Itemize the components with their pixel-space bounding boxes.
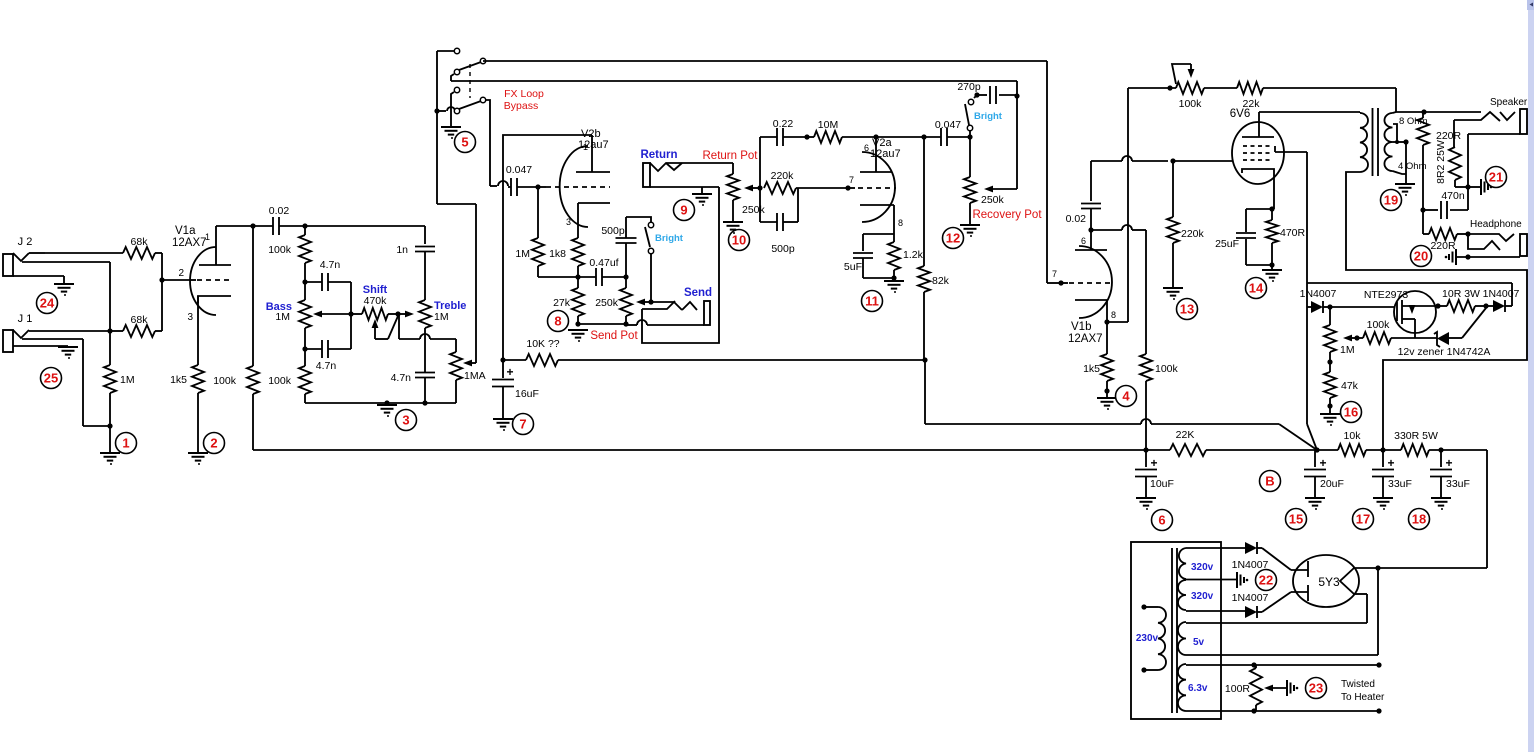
junction bass bottom (302, 346, 307, 351)
chassis 20 (1445, 249, 1456, 265)
label Bright V2a (974, 111, 1003, 122)
resistor 100k tone upper (268, 226, 311, 282)
svg-text:+: + (1445, 456, 1452, 470)
ground 19 (1395, 184, 1415, 196)
node 15 (1286, 509, 1307, 530)
svg-text:0.047: 0.047 (935, 119, 961, 131)
wire 5Y3 cathode out (1354, 565, 1487, 570)
label Bright V2b (655, 233, 684, 244)
svg-text:6V6: 6V6 (1230, 108, 1250, 120)
wire plate to 100k (1091, 225, 1146, 230)
node 11 (862, 291, 883, 312)
capacitor 0.047 V2a out (924, 119, 970, 146)
capacitor 470n (1423, 190, 1468, 219)
wire OT tap (1393, 124, 1409, 183)
junction V1b grid (1052, 269, 1069, 286)
svg-text:23: 23 (1309, 681, 1323, 696)
jack Send (626, 287, 712, 325)
capacitor 0.02 tone (269, 205, 305, 235)
junction V2a plate (873, 134, 924, 139)
node 1 (116, 433, 137, 454)
wire vvr wiper (1343, 335, 1357, 342)
label Send Pot (590, 330, 638, 342)
chassis 21 (1468, 179, 1492, 195)
ground 14 (1262, 270, 1282, 282)
svg-text:100k: 100k (1179, 98, 1203, 110)
svg-text:8: 8 (554, 314, 561, 329)
wire tone bottom (305, 400, 456, 405)
svg-text:7: 7 (849, 175, 854, 185)
pot 100R humdinger (1225, 665, 1262, 711)
node 21 (1486, 167, 1507, 188)
tube V1b (1068, 230, 1116, 345)
svg-text:68k: 68k (131, 236, 149, 248)
junction V2b cathode (575, 274, 580, 279)
node 7 (513, 414, 534, 435)
svg-text:8: 8 (1111, 310, 1116, 320)
capacitor 500p V2b (601, 217, 651, 277)
svg-text:100k: 100k (213, 375, 237, 387)
switch Bright V2b (645, 222, 654, 253)
wire screen diag (1307, 424, 1317, 450)
node 22 (1256, 570, 1277, 591)
resistor 100k vvr (1354, 319, 1415, 344)
diode zener 1N4742A (1398, 308, 1491, 358)
svg-text:12v zener 1N4742A: 12v zener 1N4742A (1398, 346, 1491, 358)
svg-text:320v: 320v (1191, 562, 1214, 573)
label Twisted To Heater (1341, 679, 1385, 703)
wire speaker feed (1396, 109, 1427, 114)
junction diode2 (1483, 303, 1488, 308)
svg-text:1M: 1M (434, 311, 449, 323)
ground 6 (1136, 498, 1156, 510)
svg-text:100k: 100k (268, 244, 292, 256)
capacitor 500p V2a (760, 188, 798, 255)
svg-text:7: 7 (519, 417, 526, 432)
ground 7 (493, 419, 513, 431)
capacitor 20uF (1304, 450, 1344, 497)
diode 1N4007 vvr2 (1483, 288, 1520, 312)
junction recovery top (967, 134, 972, 139)
svg-text:68k: 68k (131, 314, 149, 326)
wire B+ rail (253, 447, 1170, 452)
transformer OT core (1373, 108, 1379, 176)
junction 10M left (804, 134, 809, 139)
resistor 10K unknown (503, 338, 925, 366)
capacitor 33uF first (1372, 450, 1412, 497)
capacitor 1n (396, 226, 435, 300)
ground 17 (1373, 498, 1393, 510)
resistor 220R speaker (1417, 112, 1462, 210)
jack Headphone (1456, 234, 1527, 260)
svg-text:16: 16 (1344, 405, 1358, 420)
junction V1b plate (1088, 227, 1093, 232)
transformer PT primary 230v (1136, 604, 1166, 672)
label Return Pot (703, 150, 759, 162)
svg-text:Bright: Bright (974, 111, 1003, 122)
jack Speaker (1424, 109, 1527, 134)
wire treble wiper (398, 311, 414, 318)
svg-text:4.7n: 4.7n (320, 259, 341, 271)
capacitor 0.47uf (578, 257, 626, 286)
wire screen across (1307, 283, 1512, 306)
wire 4.7n join vertical (350, 282, 352, 349)
capacitor 10uF (1135, 450, 1174, 497)
capacitor 0.22 (760, 118, 807, 146)
svg-text:3: 3 (402, 413, 409, 428)
svg-text:1: 1 (205, 232, 210, 242)
wire NFB to OT (1395, 88, 1397, 112)
node 2 (204, 433, 225, 454)
pot Shift 470k (351, 284, 396, 320)
svg-text:V1b: V1b (1071, 321, 1091, 333)
node 23 (1306, 678, 1327, 699)
mosfet NTE2973 (1364, 289, 1436, 338)
junction tone top (302, 223, 425, 228)
wire humdinger wiper (1264, 685, 1287, 692)
svg-text:1N4007: 1N4007 (1483, 288, 1520, 300)
svg-text:22K: 22K (1176, 429, 1195, 441)
wire FX common (437, 51, 476, 363)
svg-text:13: 13 (1180, 302, 1194, 317)
resistor 470R (1266, 209, 1306, 269)
wire B+ to rectifier (1486, 450, 1488, 568)
diode 1N4007 vvr1 (1300, 288, 1337, 313)
node 25 (41, 368, 62, 389)
svg-text:1MA: 1MA (464, 370, 486, 382)
label Recovery Pot (972, 209, 1042, 221)
wire 68k join (161, 253, 163, 331)
ground 1 (100, 453, 120, 465)
wire return node vertical (759, 137, 761, 222)
capacitor 4.7n treble (391, 328, 435, 403)
wire 6V6 screen (1275, 151, 1307, 153)
resistor 68k upper (45, 236, 162, 259)
resistor 220R headphone (1423, 210, 1471, 252)
svg-text:1N4007: 1N4007 (1232, 592, 1269, 604)
ground 12 (960, 225, 980, 237)
ground 5 (441, 127, 461, 139)
svg-text:230v: 230v (1136, 633, 1159, 644)
svg-text:20: 20 (1414, 249, 1428, 264)
wire OT primary return (1346, 174, 1527, 450)
jack J2 (3, 236, 110, 331)
resistor 27k (553, 277, 584, 324)
ground 9 (692, 194, 712, 206)
junction 82k top (921, 134, 926, 139)
node 4 (1116, 386, 1137, 407)
svg-text:500p: 500p (601, 225, 625, 237)
svg-text:5Y3: 5Y3 (1318, 575, 1340, 589)
node 14 (1246, 278, 1267, 299)
label FX Loop Bypass (504, 88, 544, 112)
capacitor 33uF second (1430, 450, 1470, 497)
tube V2b (546, 128, 610, 238)
svg-text:22: 22 (1259, 573, 1273, 588)
svg-text:10uF: 10uF (1150, 478, 1174, 490)
svg-text:0.02: 0.02 (1066, 213, 1087, 225)
pot Recovery 250k (964, 137, 1005, 224)
wire FX rail2 (451, 80, 1017, 82)
diode 1N4007 rect1 (1232, 542, 1291, 571)
svg-text:16uF: 16uF (515, 388, 539, 400)
svg-text:12AX7: 12AX7 (1068, 333, 1103, 345)
svg-text:24: 24 (40, 296, 55, 311)
svg-text:Headphone: Headphone (1470, 219, 1522, 230)
label Speaker (1490, 97, 1528, 108)
chassis 23 (1287, 680, 1298, 696)
pot Bass 1M (266, 282, 311, 349)
resistor 1k5 V1b (1083, 322, 1113, 397)
resistor 22K rail (1170, 429, 1338, 456)
svg-text:10R 3W: 10R 3W (1442, 288, 1480, 300)
wire 6V6 grid (1091, 156, 1233, 164)
resistor 1.2k (888, 234, 924, 281)
wire recovery wiper (984, 186, 1017, 193)
svg-text:Return: Return (640, 149, 677, 161)
pot Send 250k (595, 277, 632, 327)
resistor 220k return (764, 170, 848, 194)
resistor 68k lower (110, 314, 162, 337)
pot Volume 1MA (450, 346, 486, 403)
capacitor 5uF (844, 234, 894, 278)
capacitor 0.047 V2b in (506, 164, 538, 196)
transformer PT core (1172, 548, 1177, 713)
svg-text:12: 12 (946, 231, 960, 246)
svg-text:2: 2 (210, 436, 217, 451)
svg-text:8R2 25W: 8R2 25W (1435, 140, 1447, 184)
svg-text:21: 21 (1489, 170, 1503, 185)
svg-text:100R: 100R (1225, 683, 1251, 695)
svg-text:Speaker: Speaker (1490, 97, 1528, 108)
pot 1M vvr (1324, 307, 1355, 365)
svg-text:Bypass: Bypass (504, 100, 538, 112)
capacitor 4.7n upper (305, 259, 351, 291)
svg-text:J 1: J 1 (18, 313, 33, 325)
junction V1b cathode (1104, 319, 1128, 324)
tube 5Y3 (1291, 555, 1359, 607)
svg-text:1N4007: 1N4007 (1232, 559, 1269, 571)
svg-text:2: 2 (178, 268, 184, 279)
wire V1a plate rail (216, 225, 273, 227)
junction shift out (395, 311, 400, 316)
tube V2a (858, 137, 903, 228)
svg-text:470n: 470n (1441, 190, 1465, 202)
tube 6V6 (1230, 108, 1284, 209)
wire FX switch to V2b (486, 100, 497, 186)
svg-text:5: 5 (461, 135, 468, 150)
junction heater taps (1251, 662, 1381, 713)
ground 4 (1097, 398, 1117, 410)
wire return wiper (744, 185, 763, 192)
resistor 1k8 V2b cathode (549, 238, 584, 277)
node 10 (729, 230, 750, 251)
node 9 (674, 200, 695, 221)
tube V1a (172, 225, 233, 365)
pot 100k NFB (1172, 64, 1204, 110)
ground 15 (1305, 498, 1325, 510)
svg-text:47k: 47k (1341, 380, 1359, 392)
switch Bright V2a (965, 99, 974, 137)
svg-text:1M: 1M (275, 311, 290, 323)
wire send enclosure (642, 187, 719, 343)
transformer OT primary (1259, 112, 1368, 174)
svg-text:4.7n: 4.7n (391, 372, 412, 384)
resistor 47k (1324, 362, 1359, 413)
svg-text:8: 8 (898, 218, 903, 228)
svg-text:Twisted: Twisted (1341, 679, 1375, 690)
svg-text:4: 4 (1122, 389, 1130, 404)
ground under J2 (54, 284, 74, 296)
svg-text:+: + (506, 365, 513, 379)
svg-text:14: 14 (1249, 281, 1264, 296)
ground 10 (723, 222, 743, 234)
svg-text:33uF: 33uF (1388, 478, 1412, 490)
svg-text:250k: 250k (595, 297, 619, 309)
wire 5v return (1377, 568, 1379, 655)
svg-text:Send: Send (684, 287, 712, 299)
svg-text:1.2k: 1.2k (903, 249, 924, 261)
svg-text:33uF: 33uF (1446, 478, 1470, 490)
svg-text:27k: 27k (553, 297, 571, 309)
svg-text:19: 19 (1384, 193, 1398, 208)
hop at V2b input (498, 181, 508, 186)
svg-text:15: 15 (1289, 512, 1303, 527)
svg-text:0.47uf: 0.47uf (589, 257, 618, 269)
svg-text:10: 10 (732, 233, 746, 248)
svg-text:7: 7 (1052, 269, 1057, 279)
pot Treble 1M (419, 300, 466, 328)
svg-text:25: 25 (44, 371, 58, 386)
svg-text:220k: 220k (1181, 228, 1205, 240)
node 6 (1152, 510, 1173, 531)
transformer PT box (1131, 542, 1221, 719)
svg-text:470R: 470R (1280, 227, 1306, 239)
wire bright to wiper (648, 254, 653, 305)
svg-text:320v: 320v (1191, 591, 1214, 602)
ground 11 (884, 281, 904, 293)
wire filament bottom (1354, 594, 1367, 623)
junction grid V1a (159, 277, 190, 282)
junction 27k bottom (575, 321, 626, 326)
svg-text:330R 5W: 330R 5W (1394, 430, 1438, 442)
node 19 (1381, 190, 1402, 211)
junction drain (1435, 303, 1440, 308)
wire bass wiper (313, 311, 354, 318)
wire V2b supply box (503, 135, 592, 360)
switch FX bypass pole2 (434, 87, 485, 126)
wire speaker sleeve (1465, 134, 1470, 210)
svg-text:0.047: 0.047 (506, 164, 532, 176)
svg-text:0.02: 0.02 (269, 205, 290, 217)
node 3 (396, 410, 417, 431)
svg-text:100k: 100k (268, 375, 292, 387)
wire FX rail2 drop (1014, 81, 1019, 189)
svg-text:11: 11 (865, 294, 879, 309)
node 13 (1177, 299, 1198, 320)
pot Return 250k (727, 163, 766, 221)
capacitor 0.02 V1b out (1066, 161, 1101, 230)
transformer OT secondary (1384, 112, 1406, 174)
resistor 82k (918, 137, 950, 360)
svg-text:25uF: 25uF (1215, 238, 1239, 250)
svg-text:1N4007: 1N4007 (1300, 288, 1337, 300)
wire NFB rail (1128, 85, 1176, 90)
wire screen drop (1306, 152, 1308, 424)
svg-text:B: B (1265, 474, 1274, 489)
resistor 100k tone lower (268, 349, 311, 403)
junction gate (1327, 304, 1394, 309)
wire send wiper (636, 299, 651, 306)
wire FX B+ riser (922, 357, 927, 424)
switch FX bypass gang link (469, 64, 471, 98)
svg-text:250k: 250k (742, 204, 766, 216)
svg-text:1M: 1M (120, 374, 135, 386)
ground under J1 (58, 347, 78, 359)
junction V2b grid (535, 184, 546, 189)
wire FX rail1 (483, 60, 1047, 62)
wire volume wiper (463, 360, 476, 367)
svg-text:10K ??: 10K ?? (526, 338, 559, 350)
jack Return (640, 149, 733, 193)
svg-text:17: 17 (1356, 512, 1370, 527)
svg-text:6: 6 (1158, 513, 1165, 528)
transformer PT 5v (1178, 622, 1378, 655)
svg-text:V1a: V1a (175, 225, 196, 237)
resistor 100k V1a plate load (213, 223, 259, 450)
junction 16uF (500, 357, 505, 362)
resistor 220k 6V6 grid (1167, 161, 1205, 287)
svg-text:+: + (1387, 456, 1394, 470)
svg-text:1M: 1M (1340, 344, 1355, 356)
node 17 (1353, 509, 1374, 530)
capacitor 16uF (492, 360, 539, 418)
svg-text:1: 1 (122, 436, 129, 451)
capacitor 4.7n lower (305, 340, 351, 372)
svg-text:10k: 10k (1344, 430, 1362, 442)
junction bass top (302, 279, 307, 284)
ground 2 (188, 453, 208, 465)
wire V2a cathode (863, 222, 894, 234)
junction V2a grid (845, 175, 858, 191)
svg-text:470k: 470k (364, 295, 388, 307)
svg-text:3: 3 (566, 217, 571, 227)
resistor 22k NFB (1204, 82, 1396, 110)
jack J1 (3, 313, 110, 426)
resistor 1M V2b grid (515, 187, 578, 277)
resistor 8R2 25W (1435, 120, 1468, 187)
svg-text:Return Pot: Return Pot (703, 150, 759, 162)
node 8 (548, 311, 569, 332)
transformer PT 320v upper (1179, 548, 1245, 579)
chassis 22 (1237, 572, 1248, 588)
node 16 (1341, 402, 1362, 423)
svg-text:Bright: Bright (655, 233, 684, 244)
wire shift wiper (372, 316, 398, 339)
svg-text:4.7n: 4.7n (316, 360, 337, 372)
svg-text:100k: 100k (1367, 319, 1391, 331)
svg-text:12AX7: 12AX7 (172, 237, 207, 249)
capacitor 25uF (1215, 209, 1272, 265)
scrollbar (1527, 0, 1534, 752)
svg-text:20uF: 20uF (1320, 478, 1344, 490)
svg-text:Recovery Pot: Recovery Pot (972, 209, 1042, 221)
svg-text:1k5: 1k5 (170, 374, 187, 386)
svg-text:1M: 1M (515, 248, 530, 260)
junction send top (623, 274, 628, 279)
ground 8 (568, 330, 588, 342)
svg-text:270p: 270p (957, 81, 981, 93)
